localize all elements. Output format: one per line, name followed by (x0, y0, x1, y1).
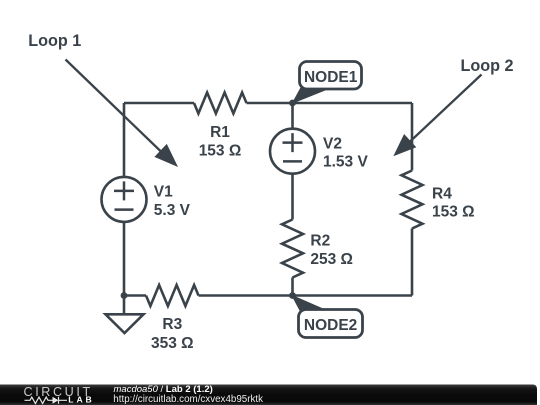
ground symbol (106, 314, 144, 333)
node NODE2 callout label (291, 295, 363, 338)
svg-text:Loop 1: Loop 1 (28, 32, 81, 50)
arrow Loop 1 (66, 60, 179, 168)
svg-text:R2: R2 (310, 233, 330, 250)
svg-text:153 Ω: 153 Ω (432, 203, 475, 220)
svg-text:153 Ω: 153 Ω (199, 142, 242, 159)
CircuitLab logo wordmark LAB (68, 394, 94, 404)
label Loop 1 (28, 32, 81, 50)
svg-text:353 Ω: 353 Ω (151, 335, 194, 352)
svg-text:R4: R4 (432, 185, 452, 202)
wire bottom segment R3 to bottom-right corner (199, 294, 413, 297)
wire right vertical lower (R4 to corner) (411, 229, 414, 296)
label Loop 2 (461, 57, 514, 75)
wire right vertical upper (corner to R4) (411, 103, 414, 171)
svg-text:http://circuitlab.com/cxvex4b9: http://circuitlab.com/cxvex4b95rktk (113, 394, 263, 405)
footer bar (0, 385, 537, 405)
node NODE1 junction dot (289, 100, 296, 107)
svg-text:Loop 2: Loop 2 (461, 57, 514, 75)
R4 value label 153 Ω (432, 185, 475, 220)
R3 value label 353 Ω (151, 316, 194, 352)
footer url text (113, 394, 263, 405)
V2 value label 1.53 V (323, 135, 368, 170)
R2 value label 253 Ω (310, 233, 353, 268)
svg-text:V2: V2 (323, 135, 342, 152)
voltage source V1 (102, 177, 147, 222)
wire ground lead (123, 296, 126, 315)
voltage source V2 (270, 129, 315, 174)
svg-text:1.53 V: 1.53 V (323, 154, 368, 171)
svg-text:5.3 V: 5.3 V (154, 202, 191, 219)
resistor R2 (282, 220, 303, 278)
wire left vertical upper (corner to V1) (123, 103, 126, 176)
svg-text:NODE2: NODE2 (304, 317, 357, 334)
node NODE1 callout label (292, 62, 362, 105)
wire R2 bottom lead (291, 278, 294, 296)
svg-text:LAB: LAB (68, 394, 94, 404)
wire top segment R1 to top-right corner (247, 102, 413, 105)
wire bottom segment node to R3 (124, 294, 146, 297)
resistor R3 (146, 285, 199, 306)
svg-text:NODE1: NODE1 (304, 69, 358, 86)
V1 value label 5.3 V (154, 184, 191, 219)
wire V2 to R2 (291, 174, 294, 220)
resistor R1 (194, 93, 247, 114)
footer title text macdoa50 / Lab 2 (1.2) (114, 384, 213, 395)
wire top segment left of R1 (124, 102, 194, 105)
wire V2 top lead (291, 103, 294, 129)
node NODE2 junction dot (289, 292, 296, 299)
arrow Loop 2 (393, 75, 481, 157)
svg-text:R3: R3 (162, 316, 182, 333)
svg-text:253 Ω: 253 Ω (310, 251, 353, 268)
resistor R4 (402, 171, 423, 229)
wire left vertical lower (V1 to ground node) (123, 222, 126, 296)
svg-text:R1: R1 (210, 124, 230, 141)
CircuitLab logo resistor-diode glyph (25, 397, 68, 404)
R1 value label 153 Ω (199, 124, 242, 159)
CircuitLab logo wordmark CIRCUIT (24, 385, 93, 399)
node junction dot at ground node (121, 292, 128, 299)
svg-text:V1: V1 (154, 184, 173, 201)
